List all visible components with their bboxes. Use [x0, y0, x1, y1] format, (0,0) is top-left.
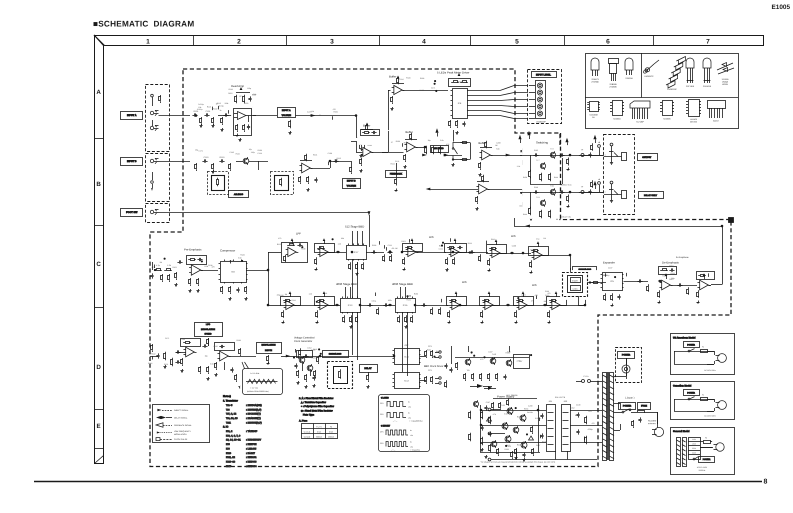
switching bias parts row 2	[524, 201, 526, 203]
General model fuse	[704, 441, 711, 444]
svg-text:Tr 8: Tr 8	[550, 148, 553, 151]
label INPUT B	[121, 158, 143, 166]
delay switch inner body C	[568, 276, 583, 293]
legend row clock pulse	[156, 438, 160, 441]
wire row2 b	[360, 305, 395, 307]
svg-text:R241: R241	[225, 260, 229, 263]
delay time switch body	[580, 280, 592, 294]
svg-text:R215: R215	[277, 243, 281, 246]
svg-text:2.2k: 2.2k	[311, 110, 314, 113]
svg-text:R241: R241	[427, 349, 431, 352]
svg-text:← t →: ← t →	[392, 419, 397, 422]
power switch symbol (Japan)	[614, 412, 622, 414]
jack J4 OUTPUT	[610, 155, 613, 158]
delay pot	[368, 374, 370, 376]
output amp IC19	[700, 280, 709, 290]
LFO integrator parts	[158, 353, 160, 355]
clock driver IC11 MN3101	[395, 349, 420, 365]
svg-text:LFO: LFO	[206, 323, 211, 326]
wire lpf2 out to expander	[501, 253, 532, 255]
svg-text:R252: R252	[228, 92, 232, 95]
switching ch1 series cap C137	[559, 155, 561, 157]
LPF1 stage 1 IC7a	[282, 243, 308, 263]
svg-text:VOLUME: VOLUME	[347, 185, 357, 188]
svg-text:2SD586: 2SD586	[609, 86, 617, 89]
svg-text:MIX SEND: MIX SEND	[434, 147, 444, 150]
LPF2 stage1 IC13a	[451, 247, 459, 256]
svg-text:LPF: LPF	[462, 280, 467, 284]
svg-text:Canadian Model: Canadian Model	[673, 385, 692, 388]
compressor IC5 (NE570)	[221, 262, 247, 283]
mute drive IC	[514, 355, 530, 369]
svg-text:C133: C133	[545, 290, 549, 293]
svg-text:4.7k: 4.7k	[493, 413, 496, 416]
meter driver IC8	[453, 89, 468, 119]
volume pot A	[290, 120, 292, 122]
supply rail marks band B	[435, 128, 438, 132]
LPF1 stage 3 IC9a	[408, 247, 416, 256]
rectifier block D01	[547, 405, 556, 452]
svg-text:F3: F3	[705, 437, 707, 440]
svg-text:C01: C01	[588, 410, 591, 413]
svg-text:IC5: IC5	[610, 280, 614, 283]
svg-text:R222: R222	[468, 242, 472, 245]
feedback pot	[396, 177, 398, 179]
LFO waveform box redraw	[241, 366, 285, 397]
svg-text:IC17: IC17	[354, 251, 359, 254]
svg-text:R252: R252	[312, 357, 316, 360]
LFO waveform trace	[248, 379, 276, 383]
svg-text:Tr7, 8, 12: Tr7, 8, 12	[226, 413, 237, 416]
svg-text:△ : Tantalum Capacitor: △ : Tantalum Capacitor	[299, 401, 326, 404]
svg-text:0.01µ: 0.01µ	[372, 300, 377, 303]
label DELAY ONLY	[639, 192, 664, 199]
wire LPF1 out	[329, 252, 347, 254]
wire input A to board	[159, 115, 191, 117]
pre-emphasis amp IC3c	[191, 265, 200, 275]
switching ch2 series cap	[533, 192, 535, 194]
svg-text:IC13: IC13	[348, 304, 353, 307]
BBD13 bias	[344, 315, 346, 317]
svg-text:R183: R183	[504, 448, 508, 451]
label LFO MODULATION SPEED	[195, 323, 223, 337]
svg-text:C224: C224	[229, 260, 233, 263]
trimmer enclosure VR (dashed) 1	[208, 172, 229, 195]
wire row2 to switch	[561, 305, 586, 307]
jack enclosure INPUT B (dashed)	[146, 154, 170, 202]
svg-text:INPUT A: INPUT A	[282, 109, 291, 112]
switching ch2 transistor Tr9	[540, 200, 545, 205]
svg-text:1k: 1k	[216, 102, 218, 105]
svg-text:General: General	[304, 435, 311, 438]
svg-text:R222: R222	[390, 162, 394, 165]
svg-text:R190: R190	[244, 102, 248, 105]
svg-text:DIRECT SIGNAL: DIRECT SIGNAL	[174, 409, 188, 412]
svg-text:47µ: 47µ	[277, 293, 280, 296]
switching redraw cover	[523, 146, 579, 219]
svg-text:: 2SB595(G,F): : 2SB595(G,F)	[246, 421, 262, 424]
input jack A second contact	[150, 126, 153, 129]
switching channel 1 wire	[520, 155, 603, 157]
legend box	[153, 405, 210, 443]
svg-text:C245: C245	[213, 345, 217, 348]
svg-text:LN28200P: LN28200P	[667, 88, 677, 91]
svg-text:t LONG: t LONG	[381, 396, 389, 399]
modulation depth pot	[268, 355, 270, 357]
svg-text:TP: TP	[581, 149, 584, 152]
power supply mid rail	[491, 433, 505, 435]
switching ch1 series cap C135	[533, 155, 535, 157]
svg-text:FUSE: FUSE	[641, 404, 647, 407]
clock driver IC12 MN3101	[395, 373, 420, 389]
svg-text:C121: C121	[439, 247, 443, 250]
wire compressor out / split	[246, 270, 268, 272]
General model switch symbol	[693, 458, 695, 460]
LED D1	[539, 83, 545, 89]
LFO opamp IC10a	[186, 347, 195, 357]
svg-text:LN28RCP: LN28RCP	[644, 75, 654, 78]
de-emphasis amp IC18	[662, 280, 671, 290]
svg-text:C135: C135	[534, 149, 538, 152]
svg-text:2: 2	[237, 39, 241, 46]
svg-text:: LM1405: : LM1405	[246, 447, 257, 450]
svg-text:BBD Clock Driver: BBD Clock Driver	[424, 365, 444, 368]
svg-text:C224: C224	[291, 299, 295, 302]
svg-text:MN3004: MN3004	[613, 118, 620, 121]
svg-text:POWER: POWER	[687, 391, 695, 394]
parts identification box	[586, 54, 739, 129]
svg-text:100k: 100k	[388, 299, 392, 302]
svg-text:R190: R190	[420, 89, 424, 92]
svg-text:470: 470	[480, 358, 483, 361]
feedback return bus	[514, 226, 722, 228]
buffer A input stub	[356, 152, 362, 154]
svg-text:US American Model: US American Model	[673, 337, 696, 340]
LED array LN28200P body	[535, 81, 549, 120]
amp stage IC2b	[302, 163, 311, 173]
svg-text:IC17: IC17	[226, 465, 232, 468]
feedback bus tail	[514, 218, 516, 226]
LFO waveform callout pointer	[242, 362, 249, 369]
svg-text:U.S.A.&: U.S.A.&	[304, 430, 311, 433]
svg-text:C171: C171	[165, 337, 169, 340]
svg-text:3: 3	[330, 39, 334, 46]
Canadian model box	[671, 382, 735, 420]
svg-text:LPF: LPF	[296, 232, 301, 236]
svg-text:R241: R241	[406, 298, 410, 301]
power indicator enclosure (dashed)	[616, 348, 642, 383]
svg-text:470: 470	[592, 422, 595, 425]
svg-text:240V: 240V	[692, 451, 697, 454]
svg-text:Tr 7: Tr 7	[536, 159, 539, 162]
svg-text:NE570N: NE570N	[690, 121, 698, 124]
wire row2 into switch	[578, 296, 580, 305]
svg-text:C245: C245	[230, 151, 234, 154]
label INPUT LEVEL	[530, 72, 558, 79]
svg-text:*The voltage of all circuits a: *The voltage of all circuits are measure…	[480, 461, 556, 464]
svg-text:ANL/RSG: ANL/RSG	[234, 193, 244, 196]
svg-text:C224: C224	[399, 78, 403, 81]
switching transistors Tr9 Tr10	[543, 190, 549, 196]
volume pot B	[351, 166, 353, 168]
svg-text:Tr11: Tr11	[501, 404, 505, 407]
clock waveform box redraw	[375, 391, 423, 455]
svg-text:2SA673: 2SA673	[591, 78, 599, 81]
arrow mute drop	[564, 197, 566, 201]
svg-text:4.7µ: 4.7µ	[156, 264, 161, 267]
test point TP1	[598, 145, 601, 148]
svg-text:R101: R101	[313, 153, 317, 156]
svg-text:4700µ: 4700µ	[587, 428, 592, 431]
svg-text:f = 0.1~9Hz: f = 0.1~9Hz	[250, 372, 259, 375]
svg-text:FEEDBACK SIGNAL: FEEDBACK SIGNAL	[174, 424, 192, 427]
svg-text:Tr10: Tr10	[550, 185, 554, 188]
svg-text:C171: C171	[199, 149, 203, 152]
svg-text:R238: R238	[420, 77, 424, 80]
svg-text:MODULATION: MODULATION	[201, 328, 215, 331]
svg-text:5.6k: 5.6k	[504, 413, 507, 416]
left ruler frame	[95, 36, 104, 464]
svg-text:Switching: Switching	[536, 141, 548, 145]
output jacks enclosure (dashed)	[604, 135, 635, 215]
arrow feedback bus	[525, 225, 530, 228]
wire de-emphasis out	[671, 285, 698, 287]
svg-text:C101: C101	[206, 110, 212, 113]
fix General plug	[713, 439, 731, 456]
package MN3004 (DIP8)	[613, 101, 623, 116]
svg-text:R160: R160	[554, 176, 558, 179]
arrow foot sw bus down	[368, 211, 371, 215]
label DELAY (pot)	[360, 365, 378, 373]
clock waveform inset box	[376, 393, 420, 453]
svg-text:CLOCK PULSE: CLOCK PULSE	[174, 438, 188, 441]
svg-text:1.2k: 1.2k	[167, 264, 171, 267]
head amp bias resistors	[237, 124, 239, 126]
svg-text:R142: R142	[151, 353, 155, 356]
svg-text:2.2k: 2.2k	[517, 165, 520, 168]
svg-text:POWER: POWER	[703, 458, 711, 461]
svg-text:10µ: 10µ	[428, 139, 431, 142]
wire expander out	[624, 281, 649, 283]
svg-text:AC100V: AC100V	[648, 420, 657, 423]
svg-text:CP1: CP1	[380, 431, 384, 434]
svg-text:DELAY SIGNAL: DELAY SIGNAL	[174, 417, 188, 420]
meter driver bias parts	[450, 120, 452, 122]
svg-text:C187: C187	[608, 266, 612, 269]
svg-text:5: 5	[515, 39, 519, 46]
row2 BBD13 pins up	[345, 287, 347, 298]
LFO pot	[208, 338, 210, 340]
rectifier block D02	[562, 405, 571, 452]
svg-text:C108: C108	[208, 264, 212, 267]
LFO waveform inset box	[243, 367, 280, 394]
fix US plug	[715, 350, 733, 368]
svg-text:POWER: POWER	[622, 353, 631, 356]
svg-text:for Earphone: for Earphone	[676, 256, 689, 259]
wire chain to head amp	[218, 115, 233, 117]
svg-text:IC16: IC16	[403, 304, 408, 307]
svg-text:1M: 1M	[543, 237, 546, 240]
svg-text:250mA: 250mA	[328, 435, 334, 438]
switching transistors Tr7 Tr8	[543, 148, 549, 154]
input jack B down arrow	[151, 188, 153, 191]
test point TP ch1	[581, 154, 584, 157]
svg-text:IC8: IC8	[458, 102, 462, 105]
package 1S1555 1N34A diodes	[717, 63, 733, 70]
BBD IC17 MN3004 (512 stage)	[347, 246, 367, 260]
svg-text:0.01µ: 0.01µ	[219, 105, 224, 108]
svg-text:Tr10: Tr10	[492, 353, 496, 356]
svg-text:R203: R203	[396, 140, 400, 143]
svg-text:33k: 33k	[341, 237, 344, 240]
svg-text:F2: F2	[702, 394, 704, 397]
junction dots on main wires	[267, 269, 269, 271]
VCO transistors Tr2 Tr3	[299, 357, 305, 363]
jack J2 aux contact	[152, 172, 154, 180]
meter driver feedback resistors	[449, 79, 471, 87]
switching ch1 transistor Tr8	[550, 152, 555, 157]
wire lpf2	[460, 252, 489, 254]
svg-text:LONG: LONG	[573, 287, 578, 290]
label SHORT/RING	[573, 267, 597, 274]
FET Tr1	[243, 158, 249, 164]
output coupling parts	[610, 140, 612, 142]
power transformer T1	[603, 373, 607, 461]
svg-text:R142: R142	[491, 238, 495, 241]
power supply bottom rail	[491, 459, 597, 461]
row2 LPF stage IC14b	[452, 300, 460, 309]
Canadian model circuit	[674, 399, 718, 401]
de-emphasis network	[659, 267, 677, 275]
svg-text:2. ★ : Fixed Metal Film Resist: 2. ★ : Fixed Metal Film Resistor	[299, 397, 333, 400]
svg-text:INPUT B: INPUT B	[127, 160, 137, 163]
row2 LPF stage IC21	[552, 300, 560, 309]
wire VCO to divider	[320, 356, 394, 358]
svg-text:DELAY: DELAY	[364, 367, 372, 370]
delay switch body D	[334, 367, 348, 384]
svg-text:R222: R222	[213, 108, 217, 111]
svg-text:: BA617: : BA617	[246, 452, 256, 455]
svg-text:C209: C209	[512, 245, 516, 248]
svg-text:IC1, 2: IC1, 2	[226, 430, 233, 433]
svg-text:(DIRECT S.B): (DIRECT S.B)	[561, 184, 572, 187]
wire mod to VCO	[281, 356, 296, 358]
svg-text:Compressor: Compressor	[220, 249, 235, 253]
jack J5 DELAY ONLY	[610, 193, 613, 196]
svg-text:INPUT LEVEL: INPUT LEVEL	[536, 74, 552, 77]
svg-text:2SB595: 2SB595	[609, 83, 617, 86]
svg-text:R156: R156	[530, 248, 534, 251]
svg-text:R158: R158	[523, 176, 527, 179]
svg-text:A: A	[96, 89, 101, 96]
post BBD mix resistors	[384, 254, 386, 256]
mix buffer IC4a	[407, 142, 416, 152]
jack J3 FOOT SW	[150, 210, 153, 213]
wire mix to buffer2	[416, 147, 426, 149]
main boundary segment x560 redraw (dashed)	[560, 133, 562, 220]
compressor bias parts	[222, 286, 224, 288]
svg-text:R101: R101	[669, 264, 673, 267]
legend row delay signal	[156, 416, 166, 419]
svg-text:IC10: IC10	[226, 452, 232, 455]
US American model box	[671, 334, 735, 375]
power supply zener and caps	[482, 411, 484, 413]
trimmer inner body 1	[212, 176, 225, 191]
General model voltage selector	[689, 438, 701, 460]
svg-text:Notes): Notes)	[223, 395, 231, 398]
package 2SC1815 2SA1015 (TO-92 long leads)	[686, 58, 694, 68]
svg-text:470: 470	[333, 108, 336, 111]
svg-text:220V: 220V	[692, 447, 697, 450]
fuse F1 on secondary	[582, 380, 585, 383]
svg-text:IC11, 12: IC11, 12	[226, 456, 236, 459]
svg-text:R222: R222	[575, 414, 579, 417]
svg-text:R252: R252	[545, 294, 549, 297]
svg-text:E: E	[97, 423, 101, 430]
output jack J5 redraw	[606, 178, 633, 209]
svg-text:SPEED: SPEED	[204, 332, 212, 335]
package LN28RCP LED	[645, 64, 654, 72]
svg-text:1: 1	[146, 39, 150, 46]
General model power switch label	[699, 457, 715, 463]
jack J1 INPUT A	[150, 111, 153, 114]
svg-text:R101: R101	[401, 240, 405, 243]
svg-text:POWER: POWER	[623, 404, 632, 407]
svg-text:F3: F3	[330, 425, 332, 428]
row2 amp IC13c	[320, 300, 328, 309]
svg-text:R203: R203	[258, 149, 262, 152]
label POWER switch (Japan)	[619, 403, 636, 410]
svg-text:INPUT B: INPUT B	[347, 179, 356, 182]
svg-text:R238: R238	[372, 244, 376, 247]
INPUT LEVEL redraw	[529, 71, 559, 123]
svg-text:+B: +B	[598, 141, 601, 144]
svg-text:C108: C108	[328, 152, 332, 155]
fuse symbol (Japan)	[631, 412, 637, 414]
svg-text:D01: D01	[549, 400, 552, 403]
test point TP ch2	[581, 191, 584, 194]
General model box	[671, 428, 735, 475]
power supply regulator transistors	[507, 408, 513, 414]
svg-text:2SA1015: 2SA1015	[703, 85, 712, 88]
svg-text:500mA: 500mA	[316, 435, 322, 438]
General model transformer	[677, 438, 681, 467]
switching channel 2 wire	[520, 192, 603, 194]
svg-text:○ : Polystyrene Film Capacitor: ○ : Polystyrene Film Capacitor	[299, 405, 334, 408]
svg-text:1S1555: 1S1555	[722, 78, 730, 81]
delay time switch enclosure (dashed bold)	[575, 276, 597, 298]
svg-text:R222: R222	[671, 272, 675, 275]
wire buffer B out	[372, 152, 404, 154]
svg-text:R115: R115	[669, 278, 673, 281]
LFO extra parts	[152, 344, 154, 346]
svg-text:10µ: 10µ	[205, 355, 208, 358]
svg-text:C121: C121	[388, 244, 392, 247]
fix Japan plug (white cover + redraw)	[649, 425, 667, 442]
legend row direct signal	[157, 409, 161, 412]
transformer primary connection	[614, 376, 626, 378]
wire meter buffer out	[403, 90, 449, 92]
svg-text:(DELAY S.B): (DELAY S.B)	[561, 216, 571, 219]
BBD16 bias	[399, 315, 401, 317]
svg-text:TA7136P: TA7136P	[636, 121, 644, 124]
svg-text:4: 4	[422, 39, 426, 46]
label FOOT SW	[121, 209, 143, 217]
svg-text:120p: 120p	[251, 151, 255, 154]
svg-text:C152: C152	[570, 406, 574, 409]
svg-text:47k: 47k	[391, 247, 394, 250]
svg-text:POWER: POWER	[687, 343, 695, 346]
